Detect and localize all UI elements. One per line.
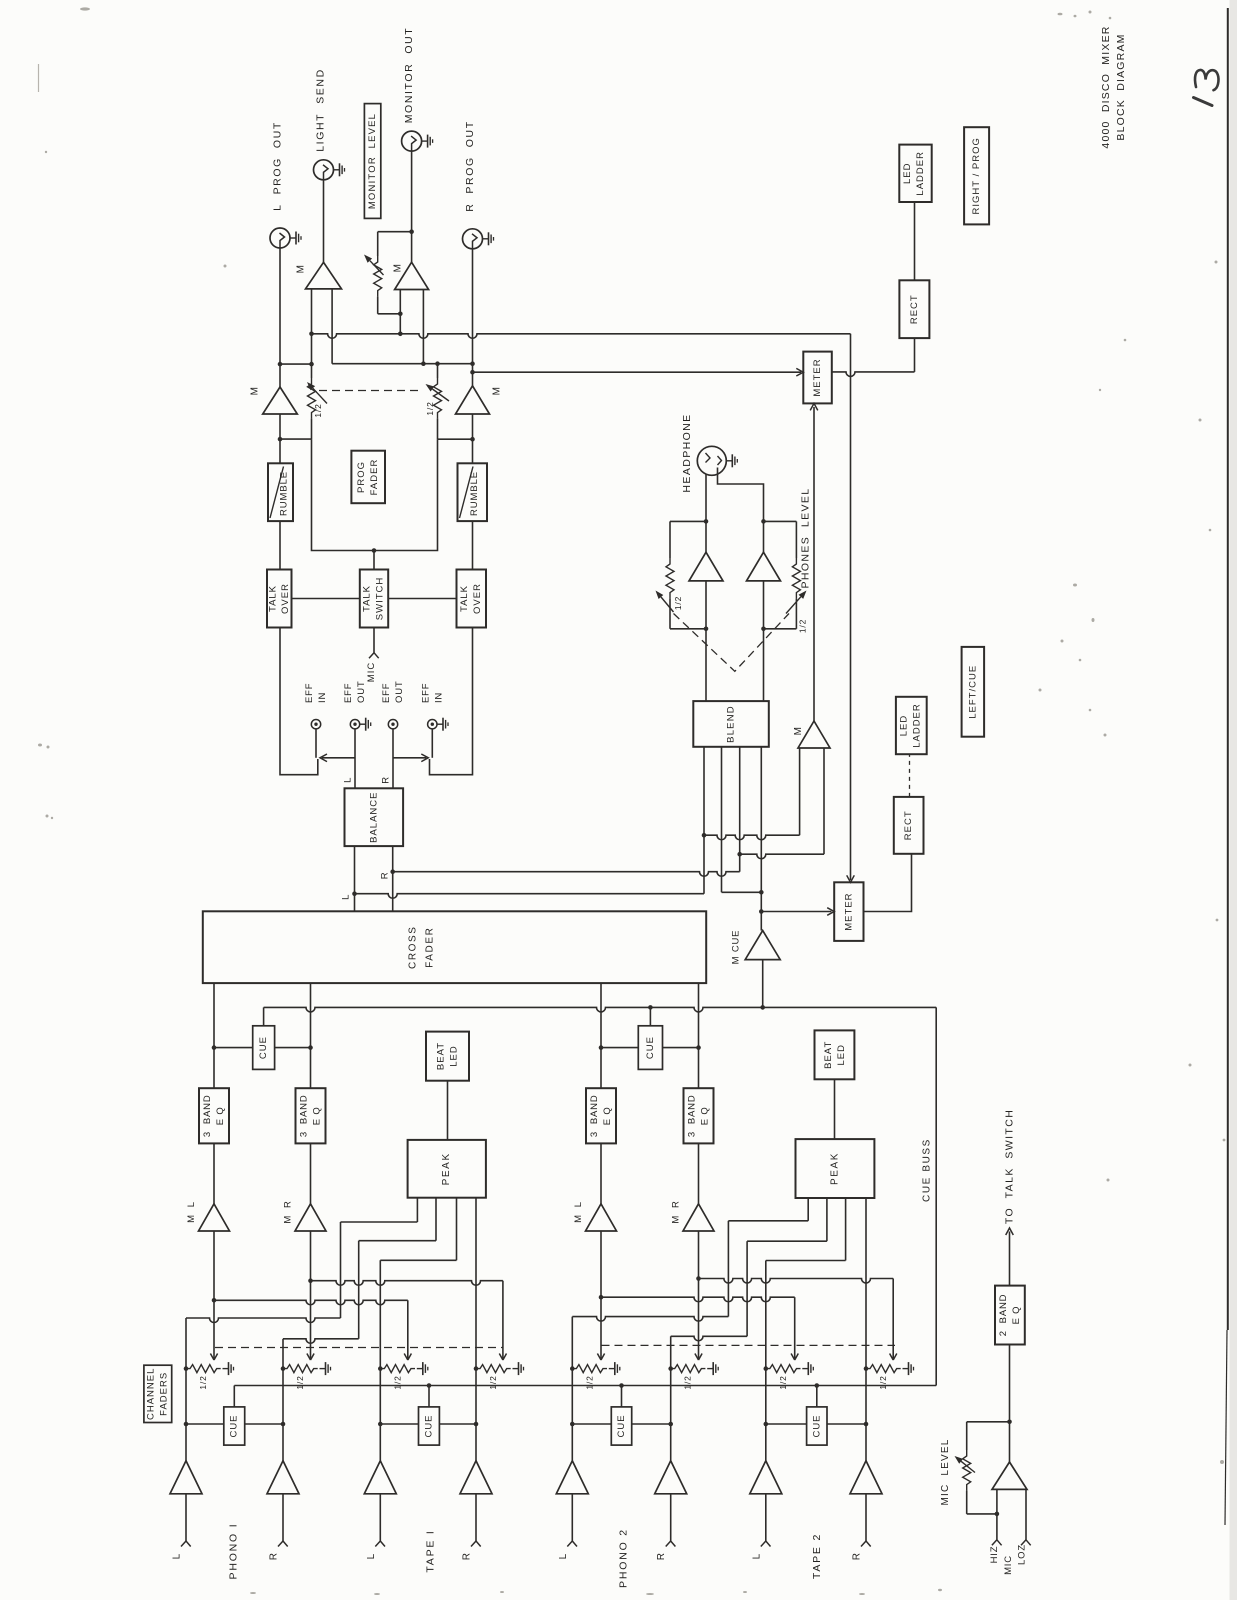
svg-text:FADER: FADER [425,927,436,968]
wire LOZ input [1025,1489,1027,1539]
svg-text:L: L [172,1553,183,1560]
PEAK detector box (channel 1) [408,1140,486,1198]
wire amp U2 to 3 band eq [310,1143,312,1203]
wire channel 7 line (input amp to fader / PEAK tap) [765,1261,767,1461]
svg-text:E Q: E Q [312,1106,323,1125]
svg-text:M: M [250,387,261,396]
svg-text:CUE: CUE [811,1414,822,1437]
fader pot 1/2 R6 with ground [671,1365,706,1373]
light send amp (M) [323,180,325,262]
CUE switch box (source 1) [186,1423,224,1425]
fader pot 1/2 R4 with ground [476,1365,511,1373]
wire L bus (to left/cue meter) [312,334,851,339]
page edge line [1227,8,1229,1330]
wire CUE box 3 stub to cue buss [621,1386,623,1407]
headphone amp R [763,521,765,552]
monitor amp (M) [395,262,429,289]
svg-text:PROG: PROG [356,461,367,493]
mic level pot loop [1009,1422,1011,1462]
svg-text:TO TALK SWITCH: TO TALK SWITCH [1003,1109,1015,1224]
svg-text:CHANNEL: CHANNEL [146,1368,157,1420]
3 BAND EQ box (chain 4) [684,1088,714,1143]
wire eff normal arrow L [322,757,355,759]
dashed gang link phones level (V) [674,614,790,672]
svg-text:LED: LED [899,715,910,736]
phones sum amp (M) to right/prog meter [798,721,830,748]
fader pot 1/2 R3 with ground [380,1365,415,1373]
LIGHT SEND jack with ground [314,160,334,180]
svg-text:TALK: TALK [362,585,373,612]
svg-text:OUT: OUT [394,681,405,703]
svg-text:CUE: CUE [258,1036,269,1059]
wire channel 4 line (input amp to fader / PEAK tap) [475,1198,477,1461]
dashed gang link channel faders group 1 [215,1347,503,1349]
3 BAND EQ box (chain 3) [586,1088,616,1143]
wire cue amp input from cue buss [762,960,764,1008]
svg-text:3 BAND: 3 BAND [299,1095,310,1138]
METER box (right/prog) [803,352,832,404]
TALK OVER box L [267,570,292,628]
svg-text:M R: M R [283,1200,294,1223]
PROG FADER label box [351,451,385,504]
svg-text:R: R [852,1552,863,1560]
wire talk over L - talk switch [292,598,360,600]
svg-text:CUE: CUE [423,1414,434,1437]
svg-text:E Q: E Q [1011,1306,1022,1325]
input terminal R (PHONO 1) [282,1494,284,1541]
svg-text:RIGHT / PROG: RIGHT / PROG [971,137,982,214]
fader pot 1/2 R1 with ground [186,1365,221,1373]
wire CUE box 1 stub to cue buss [233,1386,235,1407]
svg-text:R: R [269,1552,280,1560]
svg-text:MIC: MIC [1003,1555,1014,1575]
wire output amp R input [472,414,474,463]
svg-text:1/2: 1/2 [488,1375,498,1389]
BALANCE box [345,788,404,846]
wire headphone L line [705,474,707,522]
wire light amp R input [331,289,333,364]
wire balance R out to crossfader [392,846,394,911]
wire monitor amp R input [422,290,424,364]
svg-text:BLEND: BLEND [726,705,737,743]
wiper arrow phono1 R fader [310,1231,312,1359]
input buffer amp A5 [556,1461,588,1494]
svg-text:OVER: OVER [472,583,483,614]
svg-text:TALK: TALK [268,585,279,612]
wire eff out L to balance [354,729,356,788]
svg-text:PEAK: PEAK [830,1152,841,1185]
wire prog fader pot bottoms U-link with talk switch feed [312,439,438,550]
wire eff out R to balance [392,729,394,788]
wire light amp L input / L bus tap [311,289,313,378]
svg-text:L PROG OUT: L PROG OUT [272,121,284,211]
wire channel 3 line (input amp to fader / PEAK tap) [379,1260,381,1460]
RUMBLE filter box R (high pass) [458,463,488,521]
svg-text:M CUE: M CUE [731,930,742,965]
svg-text:2 BAND: 2 BAND [998,1294,1009,1337]
RUMBLE filter box L (high pass) [268,463,293,521]
wire channel 1 line (input amp to fader / PEAK tap) [185,1318,187,1461]
wire amp U1 to 3 band eq [213,1143,215,1203]
wire L net: balance tap to blend pin1 and headphone sum [355,894,705,899]
svg-text:3 BAND: 3 BAND [202,1095,213,1138]
dashed gang link channel faders group 2 [602,1344,896,1346]
output amp L (M) [279,364,281,387]
wire 3 band eq 4 to crossfader [698,983,700,1088]
svg-text:EFF: EFF [420,683,431,703]
svg-text:METER: METER [812,358,823,396]
svg-text:RECT: RECT [903,810,914,840]
svg-text:MIC LEVEL: MIC LEVEL [940,1438,951,1505]
wire amp U3 to 3 band eq [600,1143,602,1203]
wire blend pin4 / cue amp output [760,747,762,931]
wiper arrow phono1 L fader [213,1231,215,1359]
svg-text:LADDER: LADDER [915,151,926,196]
wire beat led 1 to peak 1 [447,1081,449,1140]
MONITOR LEVEL label box [364,104,380,219]
3 BAND EQ box (chain 1) [199,1088,229,1143]
fader pot 1/2 R5 with ground [572,1365,607,1373]
margin tick [38,64,40,92]
svg-text:3 BAND: 3 BAND [687,1095,698,1138]
HEADPHONE jack with ground [697,446,726,475]
wiper arrow phono2 L fader [600,1231,602,1359]
wire blend pin2 to cue net [721,747,723,893]
phones level pot R [764,520,797,522]
svg-text:1/2: 1/2 [295,1375,305,1389]
dashed gang link prog fader [319,390,423,392]
wire talk over R to eff loop [430,628,473,775]
input terminal L (PHONO 1) [185,1494,187,1541]
wire right/prog meter to rect [832,372,915,377]
TALK OVER box R [457,570,487,628]
svg-text:CUE: CUE [616,1414,627,1437]
wire cue buss riser [935,1007,937,1385]
svg-text:LED: LED [902,163,913,184]
svg-text:1/2: 1/2 [798,619,808,633]
wire cue tap buss to cue amp [264,1007,937,1012]
wire eff in L [315,729,317,758]
wire mic to talk switch arrow [1009,1232,1011,1286]
wire channel 6 line (input amp to fader / PEAK tap) [670,1336,672,1460]
input buffer amp A8 [850,1461,882,1494]
CUE tap box (channel 1) [214,1047,253,1049]
wire L prog out jack line [279,248,281,364]
MONITOR OUT jack with ground [402,131,422,151]
svg-text:E Q: E Q [215,1106,226,1125]
input buffer amp A3 [364,1461,396,1494]
svg-text:MIC: MIC [366,662,377,682]
label box CHANNEL FADERS [144,1365,172,1422]
TALK SWITCH box [360,570,388,628]
wire 3 band eq 3 to crossfader [600,983,602,1088]
wire amp U4 to 3 band eq [698,1143,700,1203]
prog fader pot 1/2 L [308,378,316,419]
svg-text:M: M [492,387,503,396]
svg-text:MONITOR LEVEL: MONITOR LEVEL [367,113,378,209]
svg-text:FADER: FADER [369,459,380,496]
svg-text:TAPE I: TAPE I [425,1529,437,1572]
wire MIC input to talk switch [373,628,375,653]
svg-text:CUE: CUE [645,1036,656,1059]
wire L pot bottom link [280,438,312,440]
svg-text:PHONO 2: PHONO 2 [618,1528,630,1588]
svg-text:BEAT: BEAT [823,1041,834,1069]
LED LADDER box (left/cue) [896,697,927,754]
wire talk over L to eff loop [280,628,318,775]
svg-text:PHONES LEVEL: PHONES LEVEL [800,487,812,588]
svg-text:LIGHT SEND: LIGHT SEND [315,68,327,152]
EFF OUT R jack [388,720,397,729]
2 BAND EQ box (mic) [1009,1345,1011,1422]
svg-text:BEAT: BEAT [436,1042,447,1070]
svg-text:OUT: OUT [356,681,367,703]
svg-text:1/2: 1/2 [392,1375,402,1389]
wire headphone R contact line [718,468,764,522]
svg-text:E Q: E Q [602,1106,613,1125]
scan specks [80,7,90,10]
METER box (left/cue) [834,882,863,941]
svg-text:LADDER: LADDER [912,703,923,748]
input buffer amp A7 [750,1461,782,1494]
input buffer amp A4 [460,1461,492,1494]
svg-text:LED: LED [449,1045,460,1066]
wire cue amp output to left/cue meter [763,911,832,913]
svg-text:1/2: 1/2 [673,596,683,610]
svg-text:CROSS: CROSS [408,925,419,969]
handwritten page number 13 [1194,98,1213,106]
svg-text:M: M [793,727,804,736]
svg-text:RUMBLE: RUMBLE [279,471,290,516]
EFF IN L jack [311,720,320,729]
PEAK detector box (channel 2) [796,1139,875,1198]
wire output amp L input [279,414,281,463]
svg-text:E Q: E Q [700,1106,711,1125]
svg-text:HEADPHONE: HEADPHONE [681,413,693,492]
wire wiper join L (phono2 L + tape2 L wipers) [601,1297,795,1302]
wire wiper join R (phono1 R + tape1 R wipers) [311,1281,503,1286]
wire channel 8 line (input amp to fader / PEAK tap) [865,1198,867,1461]
svg-text:LEFT/CUE: LEFT/CUE [967,665,978,719]
svg-text:1/2: 1/2 [584,1375,594,1389]
svg-text:IN: IN [317,692,328,703]
CROSS FADER box [203,911,706,983]
prog fader pot 1/2 R [437,364,439,378]
wire channel 5 line (input amp to fader / PEAK tap) [571,1317,573,1461]
wire R node row (light amp R, monitor R, pot top) [332,363,472,365]
BEAT LED box (channel 2) [815,1030,855,1079]
wire monitor amp L input [399,290,401,334]
post-fader amp U1 (M L) [199,1204,230,1231]
wire 3 band eq 1 to crossfader [213,983,215,1088]
svg-text:L: L [751,1553,762,1560]
label box LEFT/CUE [962,647,985,737]
svg-text:M L: M L [186,1201,197,1223]
wire input cue buss [234,1385,936,1387]
svg-text:TAPE 2: TAPE 2 [811,1533,823,1579]
svg-text:3 BAND: 3 BAND [589,1095,600,1138]
wire talk switch - talk over R [388,598,456,600]
svg-text:IN: IN [433,692,444,703]
svg-text:HIZ: HIZ [989,1546,1000,1564]
svg-text:CUE: CUE [229,1414,240,1437]
CUE tap box (channel 2) [601,1047,638,1049]
L PROG OUT jack with ground [270,228,290,248]
svg-text:1/2: 1/2 [425,401,435,415]
dash link rect - led ladder [909,754,911,797]
monitor level pot loop [378,231,412,233]
svg-text:R: R [462,1552,473,1560]
svg-text:PHONO I: PHONO I [228,1523,240,1580]
svg-text:L: L [558,1553,569,1560]
svg-text:RUMBLE: RUMBLE [469,471,480,516]
svg-text:4000 DISCO MIXER: 4000 DISCO MIXER [1100,25,1112,148]
post-fader amp U4 (M R) [683,1204,714,1231]
svg-text:1/2: 1/2 [198,1375,208,1389]
wire rumble R to talk over R [472,521,474,569]
svg-text:M: M [393,264,404,273]
svg-text:BALANCE: BALANCE [368,792,379,843]
svg-text:CUE BUSS: CUE BUSS [922,1138,933,1202]
post-fader amp U2 (M R) [295,1204,326,1231]
wire rumble L to talk over L [279,521,281,569]
fader pot 1/2 R8 with ground [866,1365,901,1373]
EFF IN R jack with ground [428,720,437,729]
svg-text:RECT: RECT [909,294,920,324]
svg-text:EFF: EFF [304,683,315,703]
CUE switch box (source 2) [380,1423,418,1425]
MIC preamp [992,1462,1027,1489]
CUE switch box (source 3) [572,1423,611,1425]
cue amp (M CUE) [745,931,780,960]
wire R prog out jack line [472,249,474,386]
svg-text:1/2: 1/2 [778,1375,788,1389]
svg-text:R PROG OUT: R PROG OUT [464,120,476,212]
svg-text:L: L [343,777,354,783]
RECT box (right/prog) [899,280,929,338]
svg-text:1/2: 1/2 [878,1375,888,1389]
wire channel 2 line (input amp to fader / PEAK tap) [282,1339,284,1461]
svg-text:BLOCK DIAGRAM: BLOCK DIAGRAM [1115,33,1127,140]
input terminal L (PHONO 2) [571,1494,573,1541]
svg-text:PEAK: PEAK [441,1152,452,1185]
wire left/cue meter to rect [864,854,912,912]
svg-text:R: R [380,872,391,879]
svg-text:METER: METER [843,892,854,930]
wire eff normal arrow R [393,757,426,759]
svg-text:FADERS: FADERS [159,1372,170,1416]
svg-text:M L: M L [573,1201,584,1223]
post-fader amp U3 (M L) [586,1204,617,1231]
input terminal R (PHONO 2) [670,1494,672,1541]
svg-text:LOZ: LOZ [1017,1544,1028,1565]
LED LADDER box (right/prog) [899,145,931,202]
svg-text:OVER: OVER [280,583,291,614]
input terminal R (TAPE 1) [475,1494,477,1541]
svg-text:L: L [341,894,352,900]
wire L pot-top link [280,363,312,365]
input buffer amp A2 [267,1461,299,1494]
wire HIZ input [996,1489,998,1539]
RECT box (left/cue) [894,797,924,854]
R PROG OUT jack with ground [463,229,483,249]
3 BAND EQ box (chain 2) [296,1088,326,1143]
wire cue tap 1 stub [263,1007,265,1025]
svg-text:MONITOR OUT: MONITOR OUT [403,27,415,124]
wire 3 band eq 2 to crossfader [310,983,312,1088]
EFF OUT L jack with ground [350,720,359,729]
BEAT LED box (channel 1) [426,1032,469,1081]
svg-text:EFF: EFF [381,683,392,703]
wire wiper join R (phono2 R + tape2 R wipers) [699,1279,894,1284]
svg-text:1/2: 1/2 [313,403,323,417]
wire CUE box 4 stub to cue buss [816,1386,818,1407]
svg-text:L: L [366,1553,377,1560]
wire eff in R [431,729,433,758]
svg-text:TALK: TALK [459,585,470,612]
wire beat led 2 to peak 2 [834,1079,836,1139]
svg-text:R: R [381,776,392,783]
wiper arrow phono2 R fader [698,1231,700,1359]
CUE switch box (source 4) [766,1423,807,1425]
svg-text:M R: M R [671,1200,682,1223]
wire wiper join L (phono1 L + tape1 L wipers) [214,1300,408,1305]
wire R pot bottom link [438,438,473,440]
phones level pot L [670,520,706,522]
input terminal R (TAPE 2) [865,1494,867,1541]
input buffer amp A6 [655,1461,687,1494]
fader pot 1/2 R7 with ground [766,1365,801,1373]
svg-text:EFF: EFF [343,683,354,703]
input terminal L (TAPE 2) [765,1494,767,1541]
svg-text:1/2: 1/2 [683,1375,693,1389]
svg-text:SWITCH: SWITCH [375,577,386,620]
svg-text:M: M [296,265,307,274]
wire R bus (to right/prog meter) [473,371,802,373]
BLEND box [693,701,769,747]
wire rect to led ladder (right/prog) [914,202,916,280]
wire R net: balance tap to blend pin3 and headphone sum [393,872,740,877]
fader pot 1/2 R2 with ground [283,1365,318,1373]
input buffer amp A1 [170,1461,202,1494]
wire balance L out to crossfader [354,846,356,911]
svg-text:R: R [656,1552,667,1560]
output amp R (M) [456,386,490,414]
headphone amp L [705,521,707,552]
wire monitor out jack line [411,151,413,262]
wire CUE box 2 stub to cue buss [428,1386,430,1407]
input terminal L (TAPE 1) [379,1494,381,1541]
label box RIGHT / PROG [964,127,989,224]
wire cue tap 2 stub [649,1007,651,1025]
svg-text:LED: LED [836,1044,847,1065]
